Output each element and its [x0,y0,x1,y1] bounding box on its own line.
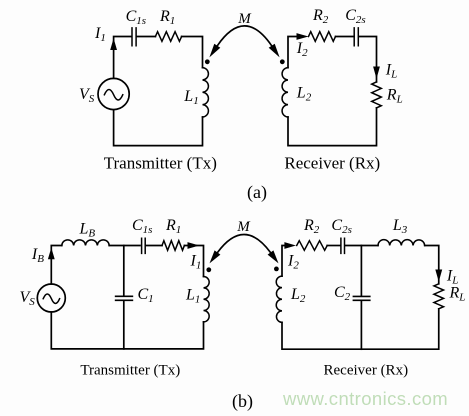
svg-text:VS: VS [20,289,36,308]
polarity dot L1 (a) [205,59,210,64]
svg-text:Transmitter (Tx): Transmitter (Tx) [80,362,180,378]
svg-text:C1s: C1s [132,217,152,236]
svg-text:M: M [236,219,251,235]
resistor R1 (a) [155,32,181,42]
svg-text:C1s: C1s [126,8,146,27]
wire a-tx top mid [137,36,156,38]
polarity dot L1 (b) [206,267,211,272]
svg-text:(b): (b) [232,391,253,412]
source VS (a) [98,78,129,109]
inductor LB (b) [62,240,109,246]
mutual inductance arc M (b) [218,235,271,253]
svg-text:L3: L3 [392,217,408,236]
svg-text:R1: R1 [165,217,181,236]
source VS (b) [37,284,65,312]
resistor R1 (b) [162,241,184,251]
wire b-rx top right + down [425,246,439,284]
wire a-tx left+top [114,37,132,79]
svg-text:IL: IL [385,62,397,81]
wire a-rx left+top lead [288,37,297,68]
svg-text:L2: L2 [296,85,312,104]
current arrow I2 (b) [284,242,296,249]
svg-text:I2: I2 [296,40,308,59]
wire b-rx C2 branch upper [360,246,362,296]
resistor R2 (b) [297,241,327,251]
svg-text:RL: RL [386,87,403,106]
wire b-tx C1 branch lower [123,301,125,349]
arrowhead M right (b) [268,250,279,263]
svg-text:Receiver (Rx): Receiver (Rx) [324,362,409,378]
svg-text:VS: VS [79,86,95,105]
inductor L1 (b) [204,277,210,322]
svg-text:C2s: C2s [345,7,365,26]
current arrow I1 (b) [188,242,200,249]
svg-text:www.cntronics.com: www.cntronics.com [282,388,448,409]
svg-text:M: M [237,11,252,27]
polarity dot L2 (a) [280,59,285,64]
inductor L2 (a) [282,68,288,117]
arrowhead M right (a) [269,44,280,58]
arrowhead M left (b) [210,250,221,263]
svg-text:IB: IB [31,246,44,265]
wire a-tx bottom U [114,110,203,146]
polarity dot L2 (b) [274,267,279,272]
svg-text:Receiver (Rx): Receiver (Rx) [284,154,380,173]
wire b-rx top (through node to L3) [345,245,378,247]
svg-text:I2: I2 [287,253,299,272]
svg-text:C2s: C2s [331,217,351,236]
capacitor C1s (a) [132,28,136,46]
mutual inductance arc M (a) [217,26,271,46]
sine wave VS (b) [43,294,59,304]
capacitor C2s (b) [341,238,345,253]
svg-text:LB: LB [79,221,96,240]
svg-text:R1: R1 [159,8,175,27]
capacitor C1s (b) [142,238,146,253]
inductor L3 (b) [378,240,425,246]
wire b-tx left + top lead [51,246,62,285]
resistor R2 (a) [309,32,336,42]
inductor L1 (a) [203,68,209,117]
svg-text:R2: R2 [303,217,320,236]
svg-text:R2: R2 [312,7,329,26]
wire b-tx after cap [146,245,162,247]
current arrow IL (b) [435,270,442,282]
wire a-rx bottom U [288,108,377,146]
wire b-tx top right + down to coil [184,246,203,277]
svg-text:L1: L1 [183,88,198,107]
resistor RL (b) [434,284,444,309]
svg-text:L2: L2 [290,286,306,305]
wire b-rx bottom U [282,309,439,349]
svg-text:L1: L1 [185,286,200,305]
wire b-tx bottom U [51,312,203,349]
svg-text:I1: I1 [190,253,202,272]
svg-text:C2: C2 [334,284,351,303]
svg-text:I1: I1 [94,25,106,44]
capacitor C2 (b) [353,296,369,300]
svg-text:C1: C1 [138,286,154,305]
wire a-tx top right + right down to coil [182,37,203,68]
resistor RL (a) [372,82,382,108]
wire b-tx top mid (through node) [109,245,140,247]
wire b-rx left + top lead [282,246,285,277]
current arrow IL (a) [373,67,380,79]
inductor L2 (b) [276,276,282,322]
sine wave VS (a) [104,89,122,100]
wire a-rx top mid [336,36,355,38]
current arrow I1 (a) [110,38,117,50]
wire b-tx C1 branch upper [123,246,125,296]
arrowhead M left (a) [209,44,220,58]
current arrow I2 (a) [297,33,309,40]
capacitor C1 (b) [116,296,133,300]
capacitor C2s (a) [354,28,358,46]
svg-text:(a): (a) [247,182,267,203]
current arrow IB (b) [48,248,55,260]
svg-text:RL: RL [449,284,466,303]
svg-text:Transmitter (Tx): Transmitter (Tx) [104,153,217,172]
wire b-rx C2 branch lower [360,301,362,349]
wire a-rx top right + right down [359,37,376,82]
wire b-rx top mid [327,245,340,247]
